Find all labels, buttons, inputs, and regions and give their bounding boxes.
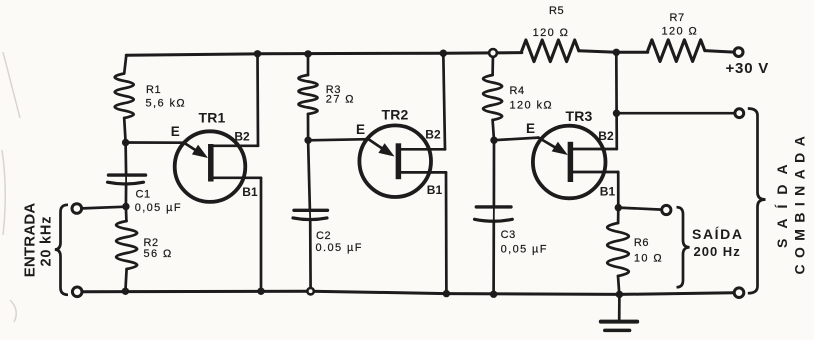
svg-text:COMBINADA: COMBINADA	[792, 130, 808, 275]
svg-text:20 kHz: 20 kHz	[38, 216, 54, 267]
svg-text:B2: B2	[598, 129, 614, 143]
svg-text:C3: C3	[501, 229, 516, 241]
svg-text:C1: C1	[136, 188, 151, 200]
svg-text:E: E	[171, 124, 180, 139]
svg-text:+30 V: +30 V	[726, 60, 770, 77]
svg-text:E: E	[526, 121, 535, 136]
svg-text:TR1: TR1	[199, 110, 226, 126]
svg-text:200 Hz: 200 Hz	[694, 244, 741, 259]
svg-text:R4: R4	[510, 85, 525, 97]
svg-text:TR2: TR2	[382, 107, 409, 123]
svg-text:SAÍDA: SAÍDA	[692, 226, 744, 242]
svg-text:B1: B1	[600, 184, 616, 198]
svg-text:B2: B2	[234, 129, 250, 143]
svg-text:5,6 kΩ: 5,6 kΩ	[146, 98, 186, 110]
svg-text:ENTRADA: ENTRADA	[22, 203, 39, 278]
svg-text:27 Ω: 27 Ω	[326, 93, 355, 105]
svg-text:E: E	[356, 122, 365, 137]
svg-text:120 Ω: 120 Ω	[533, 27, 570, 39]
svg-text:R1: R1	[146, 84, 161, 96]
svg-text:C2: C2	[316, 230, 331, 242]
svg-text:B1: B1	[427, 183, 443, 197]
svg-text:0.05 µF: 0.05 µF	[316, 242, 363, 254]
svg-text:TR3: TR3	[566, 108, 593, 124]
svg-text:R5: R5	[549, 5, 564, 17]
svg-text:120 Ω: 120 Ω	[662, 26, 699, 38]
svg-text:56 Ω: 56 Ω	[144, 248, 173, 260]
svg-text:10 Ω: 10 Ω	[634, 252, 663, 264]
svg-text:0,05 µF: 0,05 µF	[135, 202, 182, 214]
svg-text:B2: B2	[425, 128, 441, 142]
svg-text:120 kΩ: 120 kΩ	[510, 99, 554, 111]
svg-text:R7: R7	[670, 12, 685, 24]
svg-text:SAÍDA: SAÍDA	[774, 154, 790, 248]
svg-text:R6: R6	[634, 237, 649, 249]
svg-text:0,05 µF: 0,05 µF	[501, 243, 548, 255]
svg-text:B1: B1	[242, 185, 258, 199]
